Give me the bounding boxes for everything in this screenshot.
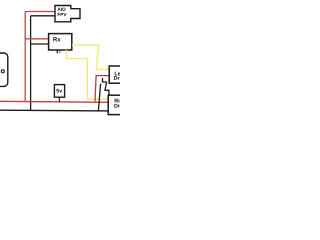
right driver box — [108, 95, 129, 114]
label FPV — [58, 13, 67, 16]
wire black left driver ground jog — [98, 78, 109, 111]
label Drive (left driver) — [114, 76, 127, 80]
label AIO — [58, 8, 66, 11]
label Rx — [53, 37, 60, 41]
stub black 5v to red bus — [58, 97, 60, 101]
battery connector dot — [1, 70, 4, 73]
left driver box — [109, 66, 129, 83]
label Drive (right driver) — [114, 104, 127, 108]
wire red riser to left driver — [95, 76, 110, 102]
5v regulator — [54, 85, 64, 98]
label 5v — [56, 89, 62, 93]
battery (LiPo pack, cut off at left edge) — [0, 53, 8, 86]
stub red below Rx — [59, 50, 61, 53]
receiver Rx — [49, 34, 72, 50]
wire red to Rx — [25, 38, 48, 40]
stub black below Rx — [56, 50, 58, 53]
label Left — [115, 71, 124, 75]
black ground bus — [0, 109, 108, 112]
wire black ground riser — [30, 16, 32, 111]
wire black to AIO FPV — [31, 15, 55, 17]
wire yellow signal Rx to left driver — [72, 45, 110, 69]
AIO FPV camera — [55, 6, 80, 22]
wire black to Rx — [31, 43, 49, 45]
label Right — [115, 99, 128, 104]
wire red battery riser (+) — [24, 12, 26, 102]
wire yellow signal Rx to right driver — [66, 50, 108, 99]
wire red to AIO FPV — [25, 11, 55, 13]
red power bus — [0, 101, 108, 102]
